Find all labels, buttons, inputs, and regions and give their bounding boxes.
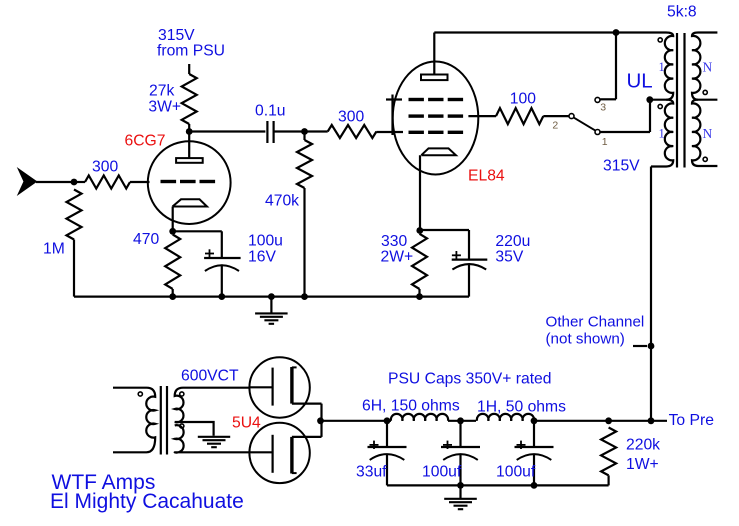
svg-text:5U4: 5U4	[232, 415, 261, 432]
PT secondary winding upper	[175, 388, 250, 423]
5U4 lower output	[292, 436, 322, 438]
svg-text:16V: 16V	[248, 249, 276, 266]
switch contact 1	[595, 130, 600, 135]
ground symbol PSU	[444, 498, 477, 500]
node 330 at bus	[416, 293, 423, 300]
svg-text:6CG7: 6CG7	[125, 133, 166, 150]
capacitor 220u 35V bypass	[468, 230, 470, 260]
svg-text:600VCT: 600VCT	[181, 367, 239, 384]
EL84 g2 stub	[468, 115, 496, 117]
wire OT primary bottom to B+ rail	[650, 167, 652, 421]
svg-text:100uf: 100uf	[496, 464, 536, 481]
OT core	[676, 33, 678, 168]
PT secondary center tap	[175, 422, 214, 436]
wire 330 to bus	[418, 289, 420, 297]
EL84 g1 dashes	[409, 131, 464, 134]
ground symbol stage1	[255, 312, 288, 314]
wire ground lead	[270, 297, 272, 314]
ground bus stage1	[74, 296, 469, 298]
wire PSU to 27k	[188, 64, 190, 74]
node coupling junction	[301, 128, 308, 135]
wire 1M to ground bus	[73, 240, 75, 297]
6CG7 plate	[176, 158, 203, 163]
svg-text:220k: 220k	[626, 437, 660, 454]
svg-text:315V: 315V	[158, 27, 195, 44]
5U4 upper cathode	[272, 368, 274, 406]
OT primary upper phase dot	[658, 38, 662, 42]
node 220k top	[605, 417, 612, 424]
node input junction	[71, 179, 78, 186]
node psu gnd cap2	[457, 482, 464, 489]
wire 0.1u to node	[274, 130, 305, 132]
node UL tap	[646, 96, 653, 103]
wire input to grid node	[36, 181, 74, 183]
plus sign 100u	[205, 253, 214, 255]
plus sign 100uf first	[443, 444, 452, 446]
plus sign 100uf second	[517, 444, 526, 446]
6CG7 plate lead	[188, 132, 190, 159]
svg-text:UL: UL	[627, 69, 653, 92]
node To Pre junction	[648, 417, 655, 424]
svg-text:220u: 220u	[495, 233, 530, 250]
svg-text:3W+: 3W+	[148, 99, 181, 116]
plus sign 220u	[452, 254, 461, 256]
svg-text:470k: 470k	[265, 192, 299, 209]
wire node to R300b	[305, 130, 328, 132]
wire cathode to 100u cap	[173, 230, 222, 232]
node psu gnd cap3	[531, 482, 538, 489]
6CG7 cathode	[173, 199, 208, 206]
node 6CG7 plate	[186, 128, 193, 135]
5U4 lower cathode	[272, 435, 274, 473]
EL84 plate	[421, 75, 448, 81]
svg-text:3: 3	[600, 101, 606, 113]
wire 470k to bus	[303, 188, 305, 297]
node 470 at bus	[169, 293, 176, 300]
5U4 upper output	[292, 403, 322, 405]
PSU ground rail	[387, 484, 609, 486]
resistor 330 2W+ cathode	[412, 234, 427, 289]
wire other channel stub	[633, 345, 647, 347]
node cap1 tap	[384, 417, 391, 424]
EL84 g2 dashes	[409, 114, 464, 117]
wire junction down to sw3	[615, 33, 617, 100]
EL84 cathode	[421, 148, 456, 155]
wire psu ground lead	[459, 485, 461, 498]
resistor 470 cathode	[165, 235, 180, 289]
wire cathode to 220u	[420, 229, 469, 231]
svg-text:2: 2	[552, 120, 558, 132]
wire node to R 300	[74, 181, 85, 183]
wire 100 to switch pole	[543, 115, 569, 117]
svg-text:33uf: 33uf	[356, 464, 387, 481]
5U4 upper input wire	[250, 386, 273, 388]
svg-text:27k: 27k	[149, 83, 174, 100]
svg-text:100u: 100u	[248, 233, 283, 250]
ground symbol center tap	[198, 436, 230, 438]
svg-text:N: N	[703, 59, 713, 74]
PT primary stub bottom	[113, 451, 147, 453]
svg-text:2W+: 2W+	[381, 249, 414, 266]
tube EL84 envelope	[393, 62, 479, 175]
node EL84 cathode	[416, 227, 423, 234]
capacitor 0.1u coupling	[266, 121, 268, 143]
tube 6CG7 envelope	[148, 141, 231, 224]
EL84 plate lead	[433, 33, 435, 75]
wire R300b to EL84 grid	[376, 131, 403, 133]
svg-text:330: 330	[381, 233, 407, 250]
PT secondary phase dot upper	[180, 392, 184, 396]
svg-text:(not shown): (not shown)	[546, 331, 625, 348]
svg-text:315V: 315V	[603, 158, 640, 175]
svg-text:0.1u: 0.1u	[255, 103, 286, 120]
svg-text:100uf: 100uf	[422, 464, 462, 481]
capacitor 100u 16V bypass	[221, 231, 223, 258]
PT secondary phase dot lower	[180, 424, 184, 428]
5U4 upper plate	[290, 367, 293, 404]
svg-text:1: 1	[659, 127, 665, 141]
node rectifier output	[317, 417, 324, 424]
svg-text:35V: 35V	[495, 249, 523, 266]
OT primary winding lower	[651, 100, 673, 167]
EL84 cathode lead	[419, 155, 421, 230]
capacitor 33uf	[386, 421, 388, 447]
switch lever	[574, 118, 596, 131]
wire sw3 horizontal	[600, 98, 616, 100]
PT secondary winding lower	[175, 425, 250, 452]
svg-text:from PSU: from PSU	[157, 43, 225, 60]
switch pole contact 2	[569, 114, 574, 119]
wire L1 to L2	[448, 420, 476, 422]
6CG7 cathode lead	[172, 207, 174, 232]
svg-text:6H, 150 ohms: 6H, 150 ohms	[362, 398, 460, 415]
svg-text:1W+: 1W+	[626, 456, 659, 473]
wire 470 to bus	[172, 289, 174, 297]
node cathode 6CG7	[169, 228, 176, 235]
node 470k at bus	[301, 293, 308, 300]
PT primary phase dot	[138, 392, 142, 396]
capacitor 100uf first	[459, 421, 461, 447]
resistor 100 screen	[496, 108, 543, 124]
wire plate node to 0.1u	[189, 130, 265, 132]
inductor 1H 50 ohms	[477, 414, 534, 421]
OT primary winding upper	[650, 33, 673, 100]
svg-text:1: 1	[659, 60, 665, 74]
svg-text:El Mighty Cacahuate: El Mighty Cacahuate	[50, 490, 244, 513]
OT secondary upper phase dot	[703, 90, 707, 94]
svg-text:300: 300	[92, 159, 118, 176]
PT core	[160, 386, 162, 455]
svg-text:To Pre: To Pre	[669, 412, 715, 429]
svg-text:100: 100	[510, 91, 536, 108]
wire sw1 to UL tap	[600, 131, 650, 133]
PT primary stub top	[113, 387, 147, 389]
tube 5U4 lower envelope	[249, 423, 309, 483]
wire EL84 plate to OT	[434, 31, 666, 33]
resistor 300 grid stopper EL84	[328, 125, 377, 138]
wire L2 to To Pre node	[534, 420, 667, 422]
resistor 1M grid leak	[67, 190, 82, 240]
svg-text:EL84: EL84	[468, 168, 505, 185]
5U4 lower input wire	[250, 451, 273, 453]
OT secondary lower phase dot	[703, 157, 707, 161]
inductor 6H 150 ohms	[391, 414, 448, 421]
svg-text:470: 470	[133, 231, 159, 248]
svg-text:1: 1	[602, 136, 608, 148]
svg-text:300: 300	[338, 109, 364, 126]
capacitor 100uf second	[533, 421, 535, 447]
EL84 g3 dashes	[409, 98, 464, 101]
EL84 g3 stub	[386, 98, 402, 100]
6CG7 grid dashes	[161, 180, 216, 183]
svg-text:N: N	[703, 126, 713, 141]
resistor 470k grid leak EL84	[297, 140, 312, 188]
input jack arrow	[18, 169, 37, 195]
resistor 220k 1W+ bleeder	[601, 428, 616, 476]
plus sign 33uf	[370, 444, 379, 446]
resistor R 300 grid stopper (input)	[85, 176, 130, 189]
wire 27k to plate node	[188, 124, 190, 132]
svg-text:Other Channel: Other Channel	[546, 314, 645, 331]
svg-text:PSU Caps 350V+ rated: PSU Caps 350V+ rated	[388, 371, 552, 388]
OT primary lower phase dot	[658, 104, 662, 108]
resistor 27k 3W+ plate load	[182, 74, 197, 124]
OT secondary winding lower	[692, 100, 717, 166]
node cap3 tap	[531, 417, 538, 424]
wire g3 tie to g1	[391, 95, 393, 136]
node cap2 tap	[457, 417, 464, 424]
OT secondary winding upper	[692, 33, 717, 100]
node other channel tap	[648, 343, 655, 350]
svg-text:1M: 1M	[43, 241, 65, 258]
svg-text:1H, 50 ohms: 1H, 50 ohms	[477, 399, 566, 416]
node 100u at bus	[218, 293, 225, 300]
wire rect to L1	[321, 420, 392, 422]
switch contact 3	[595, 97, 600, 102]
node ground tap	[268, 293, 275, 300]
5U4 lower plate	[290, 437, 293, 474]
node plate-switch junction	[613, 29, 620, 36]
wire 220k to psu ground	[607, 475, 609, 485]
svg-text:5k:8: 5k:8	[667, 4, 697, 21]
wire 470k top lead	[303, 132, 305, 141]
tube 5U4 upper envelope	[249, 357, 309, 417]
wire R300 to 6CG7 grid	[130, 181, 150, 183]
PT primary winding	[146, 388, 155, 453]
